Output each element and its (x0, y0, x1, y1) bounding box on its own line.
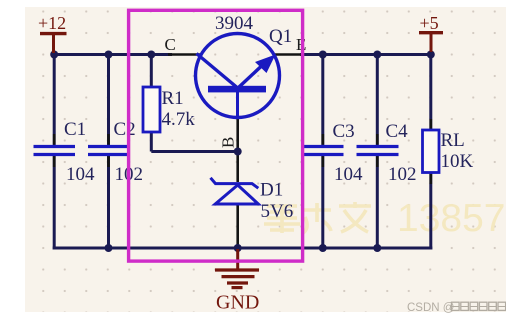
svg-text:+12: +12 (38, 13, 66, 33)
svg-text:102: 102 (388, 164, 417, 185)
svg-text:3904: 3904 (215, 13, 254, 34)
svg-text:C2: C2 (114, 119, 136, 140)
svg-text:13857: 13857 (397, 197, 505, 240)
svg-text:B: B (219, 137, 238, 148)
svg-text:R1: R1 (162, 88, 184, 109)
svg-text:D1: D1 (260, 180, 283, 201)
svg-text:Q1: Q1 (269, 26, 292, 47)
svg-text:+5: +5 (420, 13, 439, 33)
svg-text:C: C (165, 35, 176, 54)
svg-text:C1: C1 (64, 119, 86, 140)
svg-text:104: 104 (334, 164, 363, 185)
svg-text:10K: 10K (441, 151, 474, 172)
svg-text:RL: RL (441, 130, 465, 151)
svg-text:C3: C3 (333, 121, 355, 142)
svg-text:5V6: 5V6 (261, 201, 294, 222)
svg-text:4.7k: 4.7k (162, 109, 196, 130)
svg-text:104: 104 (66, 164, 95, 185)
svg-text:GND: GND (216, 292, 259, 314)
svg-text:CSDN @: CSDN @ (407, 302, 454, 314)
svg-text:C4: C4 (386, 121, 409, 142)
